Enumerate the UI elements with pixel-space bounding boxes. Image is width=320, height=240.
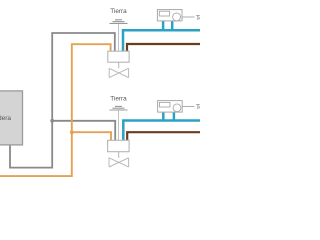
wire blue riser 1b to thermostat T1 [171,21,174,31]
valve V1 stem [118,62,120,68]
wire gray from caldera bottom up-and-over to valve V1 [10,33,115,168]
wire blue riser 2b to thermostat T2 [173,112,176,121]
wire blue riser 2a to thermostat T2 [162,112,165,121]
ground symbol 1 [110,20,128,24]
valve V2 stem [118,152,120,158]
valve V2 actuator box [108,140,130,151]
wire blue bus circuit 2 [123,121,200,143]
svg-text:Tierra: Tierra [110,95,127,102]
thermostat T2 box [158,101,183,113]
wire gray branch to valve V2 [52,121,115,142]
thermostat T1 box [157,10,182,21]
wire brown circuit 1 [127,44,200,53]
wire ground thin 1 [118,24,120,53]
thermostat T2 leader line [182,106,194,108]
wire blue bus circuit 1 [123,30,200,53]
caldera box [0,91,23,145]
svg-text:Caldera: Caldera [0,115,11,122]
wire orange branch to valve V2 [72,132,111,142]
valve V1 bowtie [109,68,128,77]
valve V2 bowtie [109,158,129,167]
thermostat T2 dial [173,104,181,112]
wire blue riser 1a to thermostat T1 [162,21,165,31]
wire orange from left edge up-and-over to valve V1 [0,44,111,176]
node gray junction [50,119,54,123]
ground symbol 2 [110,106,128,110]
thermostat T1 leader line [182,16,195,18]
svg-text:Termostato: Termostato [196,15,200,22]
thermostat T1 display [159,11,169,16]
valve V1 actuator box [108,51,129,62]
svg-text:Tierra: Tierra [110,8,127,15]
svg-text:Termostato: Termostato [196,104,200,111]
node orange junction [70,130,74,134]
wire ground thin 2 [118,111,120,142]
thermostat T1 dial [173,13,181,21]
wire brown circuit 2 [127,132,200,142]
thermostat T2 display [160,102,171,107]
